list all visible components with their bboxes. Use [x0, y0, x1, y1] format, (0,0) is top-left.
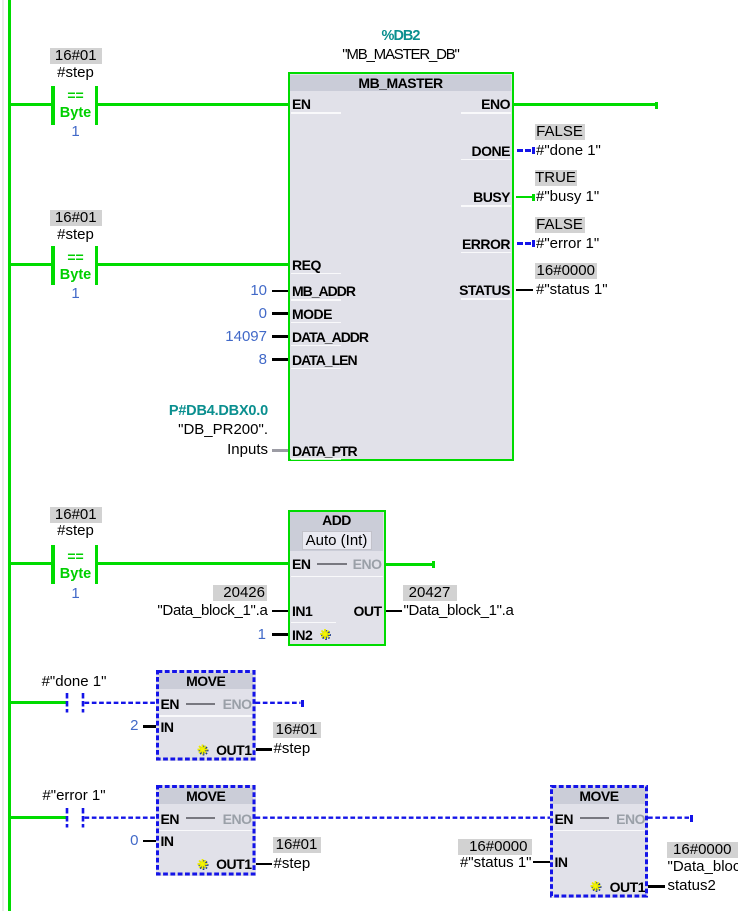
- tick BUSY: [532, 194, 535, 201]
- stub MOVE1 OUT1: [256, 748, 272, 751]
- separator under ADD IN1: [291, 622, 336, 624]
- contact EQ2 type Byte: [46, 267, 106, 283]
- stub STATUS: [516, 289, 533, 292]
- block MOVE1 body: [156, 670, 256, 761]
- wire contact EQ2 feed: [11, 263, 51, 266]
- stub BUSY green: [516, 196, 532, 199]
- tick ENO wire end: [655, 102, 658, 109]
- block MB_MASTER title: [288, 75, 514, 91]
- wire contact EQ3 to ADD EN: [98, 562, 288, 565]
- value 8 at DATA_LEN: [259, 352, 267, 368]
- block MOVE3 title: [550, 788, 648, 804]
- tick DONE: [532, 147, 535, 154]
- value box 20427: [403, 585, 457, 601]
- block MOVE1 header: [159, 673, 253, 689]
- contact EQ1 type Byte: [46, 105, 106, 121]
- block MOVE2 title: [156, 788, 256, 804]
- pin IN1: [292, 603, 312, 619]
- stub MOVE2 IN: [143, 840, 157, 843]
- pin MOVE1 OUT1: [216, 742, 251, 758]
- pin DONE: [472, 143, 510, 159]
- value 14097 at DATA_ADDR: [225, 329, 267, 345]
- pin BUSY: [473, 189, 510, 205]
- contact EQ3 left bar: [51, 545, 55, 584]
- contact EQ2 operand #step: [46, 227, 106, 243]
- link MOVE2 EN-ENO line: [186, 817, 215, 819]
- pin MOVE1 IN: [161, 719, 174, 735]
- pin MOVE2 EN: [161, 811, 179, 827]
- operand Data_block_1.a (OUT): [404, 603, 514, 619]
- block MOVE3 header: [553, 788, 645, 804]
- block ADD header: [290, 512, 383, 551]
- operand done 1: [536, 143, 601, 159]
- stub MB_ADDR: [272, 290, 288, 293]
- pin MOVE3 IN: [555, 854, 568, 870]
- operand DB_PR200: [178, 422, 268, 438]
- pin REQ: [292, 257, 321, 273]
- pin STATUS: [459, 282, 510, 298]
- contact EQ2 compare value 1: [46, 286, 106, 302]
- contact EQ1 operand #step: [46, 65, 106, 81]
- pin ADD ENO gray: [353, 556, 382, 572]
- wire contact EQ1 to EN: [98, 103, 288, 106]
- value box 16#01 (MOVE2): [273, 837, 321, 853]
- instance DB name: [310, 47, 491, 63]
- tick MOVE3 ENO end: [690, 815, 693, 822]
- wire dashed contact done to MOVE1 EN: [85, 702, 157, 704]
- wire dashed contact error to MOVE2 EN: [85, 817, 157, 819]
- separator under MOVE3 EN: [553, 830, 646, 832]
- block MOVE3 body: [550, 785, 648, 898]
- pin MOVE1 EN: [161, 696, 179, 712]
- contact done right dashed bar: [82, 693, 85, 713]
- pin MB_ADDR: [292, 283, 355, 299]
- pin ADD EN: [292, 556, 310, 572]
- operand #step (MOVE2): [274, 856, 311, 872]
- contact error right dashed bar: [82, 808, 85, 828]
- separator under MOVE1 EN: [159, 715, 253, 717]
- pin MOVE2 ENO gray: [223, 811, 252, 827]
- pin EN: [292, 96, 310, 112]
- value 0 at MODE: [259, 306, 267, 322]
- operand status 1 (MOVE3 IN): [460, 855, 532, 871]
- stub IN2: [272, 633, 288, 636]
- separator under ADD EN: [291, 576, 383, 578]
- stub MOVE3 OUT1: [648, 885, 665, 888]
- pin ERROR: [462, 236, 510, 252]
- stub DATA_PTR gray: [272, 449, 288, 452]
- block MB_MASTER header: [290, 75, 511, 91]
- pin OUT: [353, 603, 381, 619]
- pin MOVE2 IN: [161, 833, 174, 849]
- pin IN2: [292, 627, 312, 643]
- operand Data_block_1 (MOVE3 OUT1): [668, 859, 738, 875]
- editor margin line: [2, 0, 4, 911]
- link EN-ENO line: [317, 563, 347, 565]
- contact EQ2 symbol ==: [46, 249, 106, 265]
- value box 16#0000 (status): [535, 263, 598, 279]
- pin DATA_PTR: [292, 443, 357, 459]
- wire dashed MOVE1 ENO out: [256, 702, 301, 704]
- pin MOVE2 OUT1: [216, 856, 251, 872]
- value 1 at IN2: [258, 627, 266, 643]
- operand label done 1 above contact: [34, 674, 114, 690]
- pin ENO: [481, 96, 510, 112]
- block MOVE1 title: [156, 673, 256, 689]
- stub MODE: [272, 312, 288, 315]
- contact EQ3 value box 16#01: [50, 507, 103, 523]
- block ADD: [288, 510, 386, 647]
- operand Inputs: [227, 442, 268, 458]
- contact EQ1 value box 16#01: [50, 48, 103, 64]
- wire rail to contact error: [11, 816, 66, 819]
- tick ADD ENO wire end: [432, 561, 435, 568]
- value 0 at MOVE2 IN: [130, 833, 138, 849]
- block MB_MASTER: [288, 72, 514, 461]
- wire rail to contact done: [11, 701, 66, 704]
- block ADD mode box Auto (Int): [302, 531, 372, 550]
- contact EQ3 right bar: [95, 545, 99, 584]
- contact EQ1 (==Byte) left bar: [51, 86, 55, 125]
- asterisk MOVE3 OUT1: [591, 881, 602, 892]
- link MOVE3 EN-ENO line: [580, 817, 609, 819]
- wire ADD ENO out: [386, 563, 433, 566]
- tick ERROR: [532, 240, 535, 247]
- contact EQ1 compare value 1: [46, 124, 106, 140]
- block MOVE2 header: [159, 788, 253, 804]
- wire rail to contact EQ3: [11, 562, 51, 565]
- separator under MOVE2 EN: [159, 830, 253, 832]
- pin DATA_ADDR: [292, 329, 368, 345]
- contact EQ3 symbol ==: [46, 548, 106, 564]
- value box 16#0000 (MOVE3 OUT1): [667, 842, 738, 858]
- asterisk ADD IN2: [320, 629, 331, 640]
- separators under MB_MASTER pins: [291, 112, 341, 114]
- stub ERROR dashed: [517, 242, 523, 245]
- operand label error 1 above contact: [32, 788, 116, 804]
- wire rail to contact EQ1: [11, 103, 51, 106]
- operand #step (MOVE1): [274, 741, 311, 757]
- contact EQ1 right bar: [95, 86, 99, 125]
- pin MOVE3 ENO gray: [616, 811, 645, 827]
- contact EQ1 symbol ==: [46, 87, 106, 103]
- instance DB label %DB2: [330, 28, 471, 44]
- value box 20426: [213, 585, 267, 601]
- border MOVE2 dashed: [158, 787, 255, 875]
- link MOVE1 EN-ENO line: [186, 703, 215, 705]
- stub DATA_ADDR: [272, 335, 288, 338]
- operand Data_block_1.a (IN1): [157, 603, 267, 619]
- border MOVE3 dashed: [552, 787, 647, 897]
- block MOVE2 body: [156, 785, 256, 876]
- stub MOVE2 OUT1: [256, 863, 272, 866]
- stub DATA_LEN: [272, 358, 288, 361]
- contact error left dashed bar: [66, 808, 69, 828]
- border MOVE1 dashed: [158, 672, 255, 760]
- value box TRUE (busy): [535, 170, 577, 186]
- contact EQ3 type Byte: [46, 566, 106, 582]
- operand status 1: [536, 282, 608, 298]
- operand status2 (MOVE3 OUT1): [668, 878, 716, 894]
- stub DONE dashed: [517, 149, 523, 152]
- left power rail: [8, 0, 11, 911]
- contact EQ2 right bar: [95, 246, 99, 285]
- asterisk MOVE2 OUT1: [198, 859, 209, 870]
- stub IN1: [272, 610, 288, 613]
- value box 16#01 (MOVE1): [273, 722, 321, 738]
- value box FALSE (error): [535, 217, 585, 233]
- contact EQ2 value box 16#01: [50, 210, 103, 226]
- wire ENO out: [514, 103, 656, 106]
- pin MODE: [292, 306, 332, 322]
- value 2 at MOVE1 IN: [130, 718, 138, 734]
- value box FALSE (done): [535, 124, 585, 140]
- contact EQ2 left bar: [51, 246, 55, 285]
- tick MOVE1 ENO end: [301, 700, 304, 707]
- stub MOVE1 IN: [143, 725, 157, 728]
- wire contact EQ2 to REQ: [98, 263, 288, 266]
- stub OUT: [386, 610, 403, 613]
- value 10 at MB_ADDR: [250, 283, 267, 299]
- operand busy 1: [536, 189, 599, 205]
- stub MOVE3 IN: [533, 861, 550, 864]
- contact done left dashed bar: [66, 693, 69, 713]
- pin MOVE3 OUT1: [610, 879, 645, 895]
- operand error 1: [536, 236, 599, 252]
- pin DATA_LEN: [292, 352, 357, 368]
- wire dashed MOVE3 ENO out: [648, 817, 689, 819]
- asterisk MOVE1 OUT1: [198, 745, 209, 756]
- pin MOVE1 ENO gray: [223, 696, 252, 712]
- wire dashed MOVE2 ENO to MOVE3 EN: [256, 817, 551, 819]
- operand P#DB4.DBX0.0: [169, 403, 268, 419]
- pin MOVE3 EN: [555, 811, 573, 827]
- block ADD title: [288, 512, 386, 528]
- contact EQ3 compare value 1: [46, 586, 106, 602]
- value box 16#0000 (MOVE3 IN): [458, 839, 532, 855]
- contact EQ3 operand #step: [46, 523, 106, 539]
